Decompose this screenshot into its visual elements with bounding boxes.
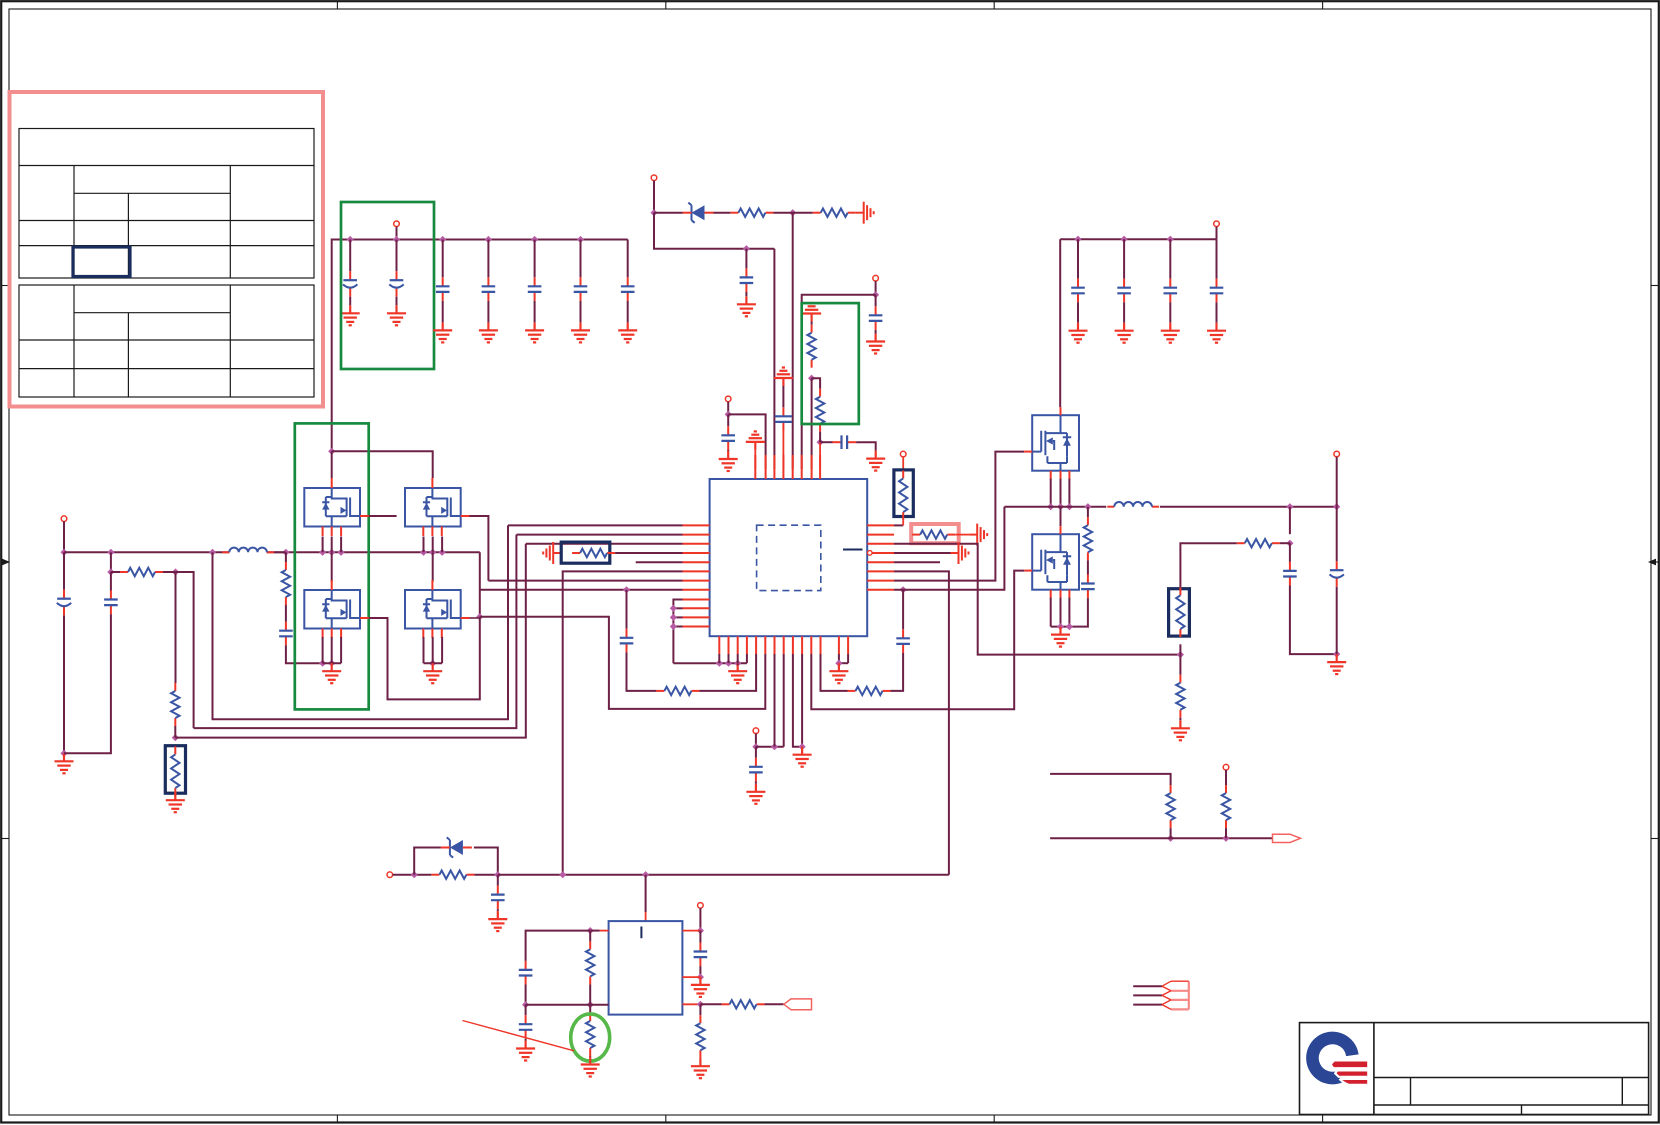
wire P9 to rail	[1216, 227, 1218, 240]
capacitor C23 lead	[1123, 239, 1125, 279]
wire N39 east to R23	[700, 1003, 721, 1005]
resistor R8	[282, 562, 290, 605]
resistor R10	[656, 687, 699, 695]
IC U1 bottom pin stubs	[719, 636, 848, 654]
node rail dots	[1074, 236, 1081, 243]
wire C9 to ground	[727, 450, 729, 451]
wire N25 down to R17	[1179, 655, 1181, 675]
node N37	[697, 927, 704, 934]
capacitor C18	[896, 629, 910, 653]
ground G31	[691, 1058, 710, 1078]
ground G25	[1161, 323, 1180, 343]
wire D1 to R1	[714, 212, 731, 214]
wire bottom pin bus	[673, 662, 747, 664]
wire R17 to ground	[1179, 718, 1181, 721]
ground G7	[618, 322, 637, 342]
wire R9 to IC pin L4	[615, 552, 682, 554]
bus ripper connector J1	[1162, 981, 1189, 1009]
wire N22 down to R14	[1087, 507, 1089, 518]
wire R21 to N36	[589, 984, 591, 1004]
resistor R19	[1222, 785, 1230, 828]
resistor R3	[807, 325, 815, 368]
power pin P2	[651, 175, 657, 181]
wire Q4 gate to N16	[470, 617, 480, 619]
wire R18 to N28	[1170, 828, 1172, 838]
node N7	[817, 439, 824, 446]
wire N16 east to IC pin B6 riser	[480, 617, 766, 709]
wire N38 to U2 pin	[682, 976, 700, 978]
wire P6 down	[755, 734, 757, 747]
node N33	[642, 871, 649, 878]
green ellipse highlight around R22	[571, 1014, 610, 1061]
node N15 feed	[328, 448, 335, 455]
capacitor C25	[491, 886, 505, 910]
wire N10 east corner down	[176, 572, 194, 728]
wire Q3 pins to node	[322, 637, 324, 663]
capacitor C15	[279, 622, 293, 646]
title block row2 divider	[1374, 1104, 1649, 1106]
wire N6 to IC pin T7	[811, 378, 813, 469]
wire IC pin L6 riser down	[563, 571, 683, 874]
wire IC pin B8 down	[783, 654, 785, 747]
wire N15 east down to Q2	[332, 451, 433, 478]
capacitor C24	[1164, 279, 1178, 303]
wire input rail left cap bank	[332, 240, 628, 452]
capacitor C4	[482, 277, 496, 301]
wire main bus y552 east	[267, 551, 480, 553]
wire U2 left pin1	[600, 930, 609, 932]
node N21	[900, 586, 907, 593]
resistor R17	[1176, 675, 1184, 718]
ground G29	[581, 1057, 600, 1077]
node N40	[835, 660, 842, 667]
wire Q4 top	[432, 552, 434, 582]
power bar PB2	[774, 368, 793, 387]
ground G30	[691, 977, 710, 997]
ground G12	[866, 451, 885, 471]
IC U2 pin1 mark	[640, 927, 642, 939]
wire N7 to IC pin T8	[819, 442, 821, 469]
wire Q6 gate to 654 line	[811, 571, 1024, 710]
navy highlight box around R9	[561, 542, 610, 563]
power pin P4	[873, 275, 879, 281]
capacitor C1 lead	[349, 240, 351, 272]
wire IC pin L5 open	[636, 561, 683, 563]
wire N34 west corner down	[526, 931, 591, 961]
title block outline	[1300, 1023, 1649, 1115]
node N2	[789, 209, 796, 216]
wire R23 to flag F2	[765, 1003, 784, 1005]
ground G2	[387, 305, 406, 325]
flag connector F2	[784, 999, 812, 1010]
node rail junctions	[347, 236, 354, 243]
resistor R2	[813, 209, 856, 217]
capacitor C8 lead	[745, 249, 747, 269]
title block cell dividers	[1410, 1078, 1412, 1106]
ground G32	[829, 663, 848, 683]
wire ripper net 1	[1133, 985, 1162, 987]
capacitor C20	[1283, 562, 1297, 586]
wire IC pin R6 riser down	[894, 571, 949, 874]
wire R4 to N7	[819, 432, 821, 443]
wire C4 to ground	[487, 301, 489, 323]
wire ripper net 2	[1133, 994, 1162, 996]
wire IC pin B7 down	[774, 654, 776, 747]
wire R13 west to IC pin B12	[821, 654, 848, 691]
node Q1 source junctions	[319, 549, 326, 556]
wire Q6 drain bar	[1051, 626, 1070, 628]
wire C22 to ground	[1077, 302, 1079, 322]
power pin P12	[698, 903, 704, 909]
wire Q5 source pins to bus	[1050, 479, 1052, 507]
wire N18 east	[756, 746, 784, 748]
wire N24 to C21	[1336, 507, 1338, 562]
capacitor C27	[519, 1015, 533, 1039]
capacitor C19	[1081, 575, 1095, 599]
wire N14 down to R8	[285, 552, 287, 562]
resistor R15	[1176, 587, 1184, 637]
node N8	[107, 549, 114, 556]
wire R15 up to corner east	[1180, 543, 1236, 587]
node Q6 drain junctions	[1057, 623, 1064, 630]
node N5	[872, 291, 879, 298]
IC U1 body	[710, 479, 868, 636]
wire R19 to N29	[1225, 828, 1227, 838]
wire C19 corner west to Q6 drain	[1069, 598, 1088, 627]
power pin P1	[394, 221, 400, 227]
wire Q1 pins to bus	[322, 537, 324, 553]
capacitor C26	[519, 961, 533, 985]
wire R20 east to N31	[474, 874, 497, 876]
wire C17 to ground	[755, 781, 757, 783]
wire R16 to N26	[1280, 542, 1290, 544]
transistor Q2	[405, 488, 461, 527]
node N18	[752, 743, 759, 750]
wire C14 up to N9	[110, 572, 112, 591]
wire Q2 pins to bus	[423, 537, 425, 553]
wire Q4 pins to node	[423, 637, 425, 663]
wire C3 to ground	[442, 301, 444, 323]
ground G19	[793, 747, 812, 767]
node N16	[476, 613, 483, 620]
wire N34 down to R21	[589, 931, 591, 942]
wire Q3 drain bar	[323, 662, 342, 664]
node N22	[1084, 503, 1091, 510]
revision table upper	[19, 129, 314, 279]
wire R1 to R2	[773, 212, 812, 214]
node N12	[60, 750, 67, 757]
wire C21 to N27	[1336, 587, 1338, 654]
capacitor C5 lead	[534, 240, 536, 278]
wire C28 to N38	[699, 966, 701, 977]
wire C13 down to corner	[63, 615, 65, 753]
ground G23	[1069, 323, 1088, 343]
ground G6	[571, 322, 590, 342]
wire N4 east to IC pin T2	[728, 414, 765, 469]
resistor R9	[572, 549, 615, 557]
wire N33 down to U2	[645, 875, 647, 912]
capacitor C24 lead	[1169, 239, 1171, 279]
ground G8	[737, 296, 756, 316]
node N26	[1286, 540, 1293, 547]
wire main rail y874	[498, 874, 949, 876]
chassis ground CG2 (mirrored)	[543, 542, 561, 564]
wire N31 down to C25	[497, 875, 499, 886]
wire N2 to IC pin T5	[792, 213, 794, 469]
wire N12 east to C14	[64, 614, 111, 753]
IC U1 inversion bubble pin	[868, 551, 873, 556]
wire C23 to ground	[1123, 302, 1125, 322]
capacitor C28	[694, 943, 708, 967]
green highlight box around Q1 Q3	[295, 423, 369, 709]
capacitor C2 (polarized)	[389, 271, 403, 297]
wire IC pin R8 east riser up	[894, 507, 1004, 590]
resistor R13	[848, 687, 891, 695]
IC U1 pin1 mark	[843, 549, 863, 551]
node N11	[172, 734, 179, 741]
transistor Q4	[405, 590, 461, 629]
transistor Q6	[1032, 534, 1079, 590]
node N38	[697, 974, 704, 981]
wire C6 to ground	[580, 301, 582, 323]
pink highlight box around R12	[911, 524, 959, 543]
resistor R6	[171, 683, 179, 726]
wire bus drop to N16	[479, 552, 481, 617]
navy highlight box around R15	[1169, 589, 1190, 636]
wire R11 to IC pin R1	[894, 524, 903, 526]
wire N25 up to R15	[1179, 644, 1181, 654]
title block logo cell divider	[1373, 1023, 1375, 1115]
wire N35 to N36 to U2	[526, 1004, 609, 1006]
IC U2 body	[609, 921, 683, 1015]
transistor Q1	[304, 488, 360, 527]
capacitor C13 lead	[63, 552, 65, 589]
border zone ticks top	[336, 1, 338, 9]
wire Q2 gate corner down to IC pin L7	[470, 516, 683, 581]
wire IC pin B10 down	[801, 654, 803, 747]
wire R24 to ground	[699, 1057, 701, 1059]
wire riser525 to IC pin L1	[508, 524, 683, 526]
flag connector F1	[1273, 834, 1301, 842]
power pin P7	[900, 451, 906, 457]
zener diode D1	[683, 203, 714, 223]
transistor Q3	[304, 590, 360, 629]
inductor L1	[222, 548, 274, 553]
ground G11	[866, 334, 885, 354]
resistor R7	[171, 746, 179, 796]
wire Q1 gate open	[369, 515, 397, 517]
wire R10 to IC pin B5	[699, 654, 756, 691]
wire P10 to R19	[1225, 770, 1227, 785]
node N6	[808, 375, 815, 382]
ground G4	[479, 322, 498, 342]
node L bus dots	[670, 605, 677, 612]
node N9	[107, 568, 114, 575]
capacitor C7 lead	[627, 240, 629, 278]
wire riser543 to IC pin L3	[526, 543, 683, 545]
node N28	[1167, 835, 1174, 842]
power pin P9	[1214, 221, 1220, 227]
capacitor C12	[833, 435, 857, 449]
wire N6 jog to R4	[812, 378, 821, 389]
wire IC pin L8 net	[480, 589, 683, 591]
ground G1	[341, 305, 360, 325]
wire main bus y552 west	[64, 551, 229, 553]
wire N9 to R5	[111, 571, 120, 573]
capacitor C14	[104, 591, 118, 615]
resistor R21	[586, 941, 594, 984]
capacitor C1 (polarized)	[343, 271, 357, 297]
ground G13	[166, 792, 185, 812]
wire IC pin R7 to Q5 gate	[894, 452, 1024, 581]
power pin P5	[61, 516, 67, 522]
wire bus to L2	[1105, 506, 1107, 508]
node N13	[209, 549, 216, 556]
ground G20	[1051, 627, 1070, 647]
wire N21 down to C18	[902, 590, 904, 630]
capacitor C4 lead	[487, 240, 489, 278]
wire C16 corner to R10	[627, 652, 657, 691]
node N10	[172, 568, 179, 575]
wire P2 down	[653, 181, 655, 213]
navy highlight box around R7	[165, 746, 185, 794]
capacitor C10 (wide)	[775, 407, 792, 431]
wire C5 to ground	[534, 301, 536, 323]
capacitor C25	[1210, 279, 1224, 303]
ground G21	[1327, 654, 1346, 674]
ground G5	[525, 322, 544, 342]
wire PB3 to R3	[811, 322, 813, 325]
transistor Q5	[1032, 415, 1079, 471]
resistor R18	[1166, 785, 1174, 828]
wire C27 to ground	[525, 1039, 527, 1041]
ground G14	[55, 753, 74, 773]
border center arrow right	[1648, 559, 1659, 566]
capacitor C11 lead	[875, 295, 877, 307]
node N14	[282, 549, 289, 556]
ground G26	[1207, 323, 1226, 343]
node N1	[650, 209, 657, 216]
node N34	[587, 927, 594, 934]
wire P4 down	[875, 281, 877, 295]
power pin P10	[1223, 764, 1229, 770]
ground G15	[322, 663, 341, 683]
node N20	[799, 743, 806, 750]
wire riser534 to IC pin L2	[516, 534, 682, 536]
capacitor C9 lead	[727, 414, 729, 426]
wire C25 to ground	[1216, 302, 1218, 322]
wire R14 to C19	[1087, 560, 1089, 574]
capacitor C21 (polarized)	[1330, 561, 1344, 587]
capacitor C3	[436, 277, 450, 301]
node Q3 drain junctions	[319, 660, 326, 667]
capacitor C25 lead	[1216, 239, 1218, 279]
capacitor C6	[574, 277, 588, 301]
wire C26 down to N35	[525, 985, 527, 1005]
wire upper rail open	[1050, 774, 1171, 785]
wire diode bypass	[414, 848, 498, 875]
green highlight box around R3 R4	[802, 303, 859, 424]
wire C11 to ground	[875, 330, 877, 334]
wire N8 down	[110, 552, 112, 572]
wire N37 down to C28	[699, 931, 701, 943]
wire R12 to chassis ground	[955, 534, 969, 536]
node N4	[725, 411, 732, 418]
border center arrow left	[2, 559, 10, 566]
ground G27	[488, 911, 507, 931]
wire R6 to N11	[174, 726, 176, 738]
resistor R14	[1084, 517, 1092, 560]
wire R5 to N10	[163, 571, 176, 573]
capacitor C16	[620, 629, 634, 653]
wire C1 to ground	[349, 297, 351, 306]
capacitor C7	[621, 277, 635, 301]
capacitor C3 lead	[442, 240, 444, 278]
capacitor C13 (polarized)	[57, 590, 71, 616]
chassis ground CG1	[856, 202, 874, 224]
wire P8 down to N24	[1336, 457, 1338, 507]
node Q5 source junctions	[1047, 503, 1054, 510]
node N19	[771, 743, 778, 750]
resistor R24	[696, 1015, 704, 1058]
capacitor C22 lead	[1077, 239, 1079, 279]
wire N5 west and down to IC pin T6	[802, 295, 876, 469]
wire IC pins L9-L12 bus	[673, 600, 682, 664]
power bar PB1	[746, 431, 765, 450]
wire N11 east to IC (via riser)	[175, 544, 526, 738]
wire IC pin B9 down corner	[793, 654, 802, 747]
wire lower rail to flag	[1050, 837, 1272, 839]
wire top rail right	[1060, 238, 1216, 240]
wire Q6 drain pins	[1050, 598, 1052, 627]
capacitor C9	[721, 426, 735, 450]
wire L2 east	[1160, 506, 1337, 508]
node N3	[743, 245, 750, 252]
resistor R23	[722, 1000, 765, 1008]
resistor R5	[120, 568, 163, 576]
wire C18 corner to R13	[891, 653, 904, 691]
wire U2 output pin to N39	[682, 1003, 700, 1005]
node bottom bus dots	[716, 660, 723, 667]
wire N1 to zener D1	[654, 212, 683, 214]
IC U1 top pin stubs	[755, 455, 820, 479]
wire C2 to ground	[396, 297, 398, 306]
wire R22 to ground	[589, 1055, 591, 1058]
border zone ticks bottom	[336, 1115, 338, 1123]
wire N23 to N26	[1289, 507, 1291, 535]
revision table lower	[19, 285, 314, 397]
resistor R20	[431, 871, 474, 879]
wire C25 to ground	[497, 909, 499, 911]
wire P7 to R11	[902, 457, 904, 471]
wire N15 down to Q1	[331, 451, 333, 478]
power pin P6	[753, 728, 759, 734]
wire P11 east	[393, 874, 432, 876]
ground G18	[746, 784, 765, 804]
node N17	[623, 586, 630, 593]
wire rail down to Q5	[1059, 239, 1061, 407]
node N32	[559, 871, 566, 878]
navy highlight box around R11	[894, 470, 913, 517]
power pin P8	[1334, 451, 1340, 457]
node N31	[494, 871, 501, 878]
capacitor C8	[740, 268, 754, 292]
wire bottom pins to bus	[718, 654, 720, 663]
capacitor C17 lead	[755, 747, 757, 758]
ground G28	[516, 1041, 535, 1061]
node Q2 source junctions	[420, 549, 427, 556]
pink highlight box around revision table	[10, 92, 324, 407]
